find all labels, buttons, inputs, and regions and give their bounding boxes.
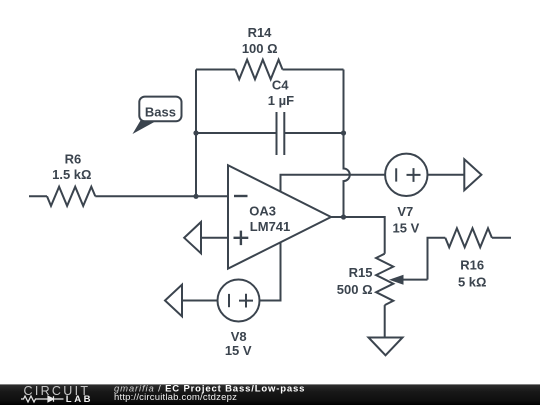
svg-text:5 kΩ: 5 kΩ — [458, 275, 487, 290]
wire: input left stub — [29, 195, 47, 197]
potentiometer R15 500 Ohm — [337, 254, 428, 305]
svg-text:15 V: 15 V — [225, 343, 252, 358]
wire: left feedback vertical — [195, 70, 197, 197]
svg-text:R16: R16 — [460, 258, 484, 273]
node: junction C4 left — [193, 130, 198, 135]
voltage source V8 15 V — [218, 280, 260, 359]
svg-text:R15: R15 — [349, 265, 373, 280]
svg-text:1.5 kΩ: 1.5 kΩ — [52, 167, 91, 182]
svg-text:Bass: Bass — [145, 105, 176, 120]
wire: top feedback left segment — [196, 69, 235, 71]
ground below R15 — [369, 338, 403, 356]
svg-text:LM741: LM741 — [250, 219, 290, 234]
resistor R6 1.5 kOhm — [47, 152, 95, 206]
svg-text:R6: R6 — [65, 152, 82, 167]
svg-text:1 µF: 1 µF — [268, 93, 294, 108]
wire: op-amp output to R15 top — [331, 217, 385, 254]
wire: ground to non-inverting input — [201, 237, 228, 239]
wire: V+ pin to V7 — [281, 175, 386, 192]
svg-text:OA3: OA3 — [249, 204, 276, 219]
svg-text:http://circuitlab.com/ctdzepz: http://circuitlab.com/ctdzepz — [114, 392, 237, 403]
annotation: Bass speech bubble — [133, 97, 182, 134]
resistor R14 100 Ohm — [235, 25, 282, 79]
capacitor C4 1 uF — [196, 77, 344, 155]
wire: R16 right stub — [492, 237, 511, 239]
svg-text:V8: V8 — [231, 329, 247, 344]
wire: V7 to output port — [427, 174, 464, 176]
footer credit text — [114, 383, 305, 403]
svg-text:15 V: 15 V — [393, 220, 420, 235]
wire: V8 left to ground — [182, 300, 218, 302]
ground at non-inverting input — [184, 222, 201, 253]
wire: R6 to inverting input — [95, 195, 228, 197]
footer CircuitLab logo — [21, 384, 93, 405]
svg-text:100 Ω: 100 Ω — [242, 41, 278, 56]
wire: R15 bottom to ground — [384, 305, 386, 337]
node: junction C4 right — [341, 130, 346, 135]
output port triangle — [464, 159, 481, 190]
svg-text:V7: V7 — [397, 204, 413, 219]
node: output junction — [341, 214, 346, 219]
svg-text:LAB: LAB — [66, 394, 93, 405]
resistor R16 5 kOhm — [445, 228, 492, 289]
wire: top feedback right segment — [283, 69, 344, 71]
node: junction input/feedback — [193, 194, 198, 199]
ground left of V8 — [165, 285, 182, 317]
svg-text:R14: R14 — [248, 25, 273, 40]
op-amp OA3 LM741 — [228, 165, 331, 268]
wire: wiper up to R16 — [428, 238, 446, 280]
svg-text:C4: C4 — [272, 77, 289, 92]
wire: V- pin down to V8 — [259, 242, 281, 300]
wire: right feedback vertical with hop — [344, 70, 350, 218]
voltage source V7 15 V — [385, 154, 427, 236]
footer bar — [0, 384, 540, 405]
svg-text:500 Ω: 500 Ω — [337, 282, 373, 297]
